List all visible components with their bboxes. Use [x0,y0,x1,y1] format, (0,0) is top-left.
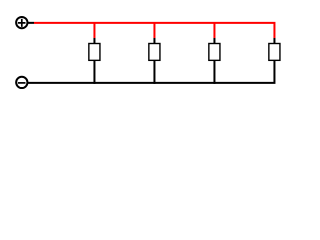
wire red stub branch 1 [93,22,95,38]
wire black lead bottom branch 3 [213,60,215,84]
resistor R2 [149,38,160,60]
wire black lead from + terminal [27,22,34,24]
positive terminal + [16,17,27,28]
wire black lead bottom branch 1 [93,60,95,84]
wire bottom black bus from - terminal with corner into branch 4 [27,60,274,83]
wire black lead bottom branch 2 [153,60,155,84]
negative terminal - [16,77,27,88]
wire red stub branch 2 [153,22,155,38]
wire top red bus with corner into branch 4 [34,23,274,38]
wire red stub branch 3 [213,22,215,38]
resistor R3 [209,38,220,60]
resistor R1 [89,38,100,60]
resistor R4 [269,38,280,60]
